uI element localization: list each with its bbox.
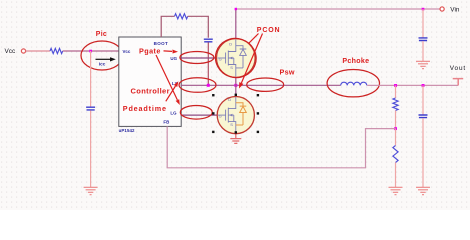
svg-text:Vin: Vin [450, 6, 460, 13]
ground under R2 [389, 187, 403, 194]
wire output cap to ground [422, 118, 424, 187]
wire bootstrap cap to LX node [207, 42, 209, 85]
resistor Rboot [175, 14, 188, 19]
node Vout/R1 junction dot [394, 84, 397, 87]
wire Vin rail [236, 8, 440, 10]
svg-text:UG: UG [170, 56, 177, 61]
wire Vin junction down to input cap [422, 9, 424, 38]
wire high-side source to low-side drain [235, 77, 237, 97]
svg-text:Pchoke: Pchoke [342, 57, 369, 65]
annotation ellipse PCON around Q1 [210, 33, 261, 83]
wire Vcc node down to decoupling cap [90, 51, 92, 107]
wire LG pin to low-side gate [181, 114, 218, 116]
ground G1 [84, 187, 98, 194]
transistor Q1 (high-side MOSFET) [217, 39, 256, 78]
svg-text:Pgate: Pgate [139, 46, 161, 55]
svg-text:LG: LG [170, 111, 177, 116]
wire Vout rail down to R1 [395, 85, 397, 98]
wire Vcc port to resistor [26, 50, 50, 52]
ground under Cout [416, 187, 430, 194]
svg-text:G: G [219, 57, 222, 62]
annotation ellipse Psw [247, 78, 284, 91]
wire FB junction to R2 [395, 129, 397, 146]
svg-text:PCON: PCON [257, 27, 281, 34]
svg-text:FB: FB [163, 119, 169, 124]
svg-text:Psw: Psw [280, 67, 295, 76]
annotation arrow Pgate to LG wire [156, 55, 177, 100]
capacitor Cvcc [86, 107, 95, 110]
resistor R1 (feedback top) [393, 98, 398, 111]
port Vin terminal circle [440, 7, 444, 11]
port Vout terminal [453, 79, 464, 86]
svg-text:uP1542: uP1542 [119, 128, 135, 133]
capacitor Cout [419, 115, 428, 118]
wire R1 to FB junction [395, 111, 397, 129]
svg-text:Controller: Controller [131, 87, 170, 96]
node Icc junction dot [89, 50, 92, 53]
annotation arrow Pdeadtime to LX pin [166, 86, 176, 101]
svg-text:Pdeadtime: Pdeadtime [123, 104, 167, 113]
svg-text:Vcc: Vcc [5, 48, 16, 55]
wire choke to Vout port [367, 84, 458, 86]
node Vout/Cout junction dot [422, 84, 425, 87]
annotation ellipse Pic [81, 41, 123, 70]
annotation arrow Pgate to UG pin [164, 50, 173, 53]
resistor Ricc (horizontal) [50, 48, 63, 53]
capacitor Cin [419, 38, 428, 41]
annotation ellipse around LG wire [180, 106, 212, 120]
current probe arrow Icc [96, 58, 111, 60]
svg-text:Vout: Vout [450, 65, 466, 72]
wire low-side source to ground [235, 133, 237, 138]
ground under low-side FET [230, 139, 241, 144]
svg-text:Icc: Icc [99, 61, 106, 66]
svg-text:Vcc: Vcc [123, 49, 131, 54]
node Vin rail corner dot [235, 8, 237, 10]
controller U1 uP1542 box [119, 37, 181, 126]
wire input cap to ground [422, 41, 424, 61]
wire bootstrap resistor to cap [188, 16, 209, 38]
wire LX pin to phase node and choke [181, 84, 341, 86]
wire Vout rail down to output cap [422, 85, 424, 114]
wire cap to ground [90, 111, 92, 188]
wire UG pin to high-side gate [181, 57, 217, 59]
svg-text:D: D [228, 97, 231, 102]
selection handles around Q2 [212, 94, 259, 134]
wire resistor to Vcc pin of controller [63, 50, 119, 52]
annotation ellipse Pchoke [327, 70, 379, 97]
wire R2 to ground [395, 163, 397, 188]
annotation arrow PCON to phase node [241, 34, 262, 84]
annotation ellipse around LX wire [179, 78, 216, 93]
node FB junction dot [394, 127, 397, 130]
svg-text:D: D [229, 42, 232, 47]
svg-text:Pic: Pic [96, 31, 107, 38]
capacitor Cboot [204, 39, 213, 42]
annotation line PCON to Q1 [249, 34, 259, 44]
inductor Lchoke [341, 82, 367, 85]
node Vin cap junction dot [422, 8, 425, 11]
node phase junction dot [234, 84, 237, 87]
wire BOOT pin up and to bootstrap resistor [161, 16, 174, 37]
transistor Q2 (low-side MOSFET, selected) [217, 97, 254, 134]
annotation ellipse around UG wire [180, 52, 214, 64]
ground Gin [416, 61, 430, 68]
resistor R2 (feedback bottom) [393, 146, 398, 163]
port Vcc terminal circle [21, 49, 25, 53]
node boot-cap/LX junction dot [207, 84, 210, 87]
svg-text:S: S [230, 122, 233, 127]
wire Vin rail down to high-side drain [235, 9, 237, 39]
svg-text:G: G [219, 114, 222, 119]
wire FB feedback net [167, 126, 395, 167]
svg-text:S: S [230, 65, 233, 70]
